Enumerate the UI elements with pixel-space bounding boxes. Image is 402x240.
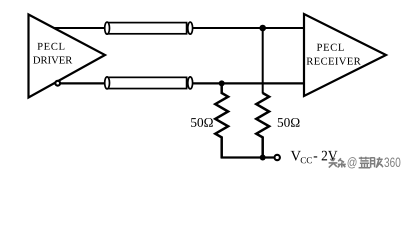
terminal: open circle Vcc-2V [275,155,280,160]
wire: vertical drop from top line to resistor R2 [262,28,264,94]
resistor R2 50 ohm [256,93,269,158]
resistor R1 50 ohm [215,83,228,158]
transmission line T1 (coax cylinder, top) [105,22,193,34]
wire: bottom rail to Vcc-2V terminal [221,156,274,158]
watermark glyph lan [359,157,372,169]
label: Vcc - 2V [291,151,338,164]
transmission line T2 (coax cylinder, bottom) [105,77,193,89]
watermark (gray) [329,157,402,170]
node: junction dot on bottom line (R1 tap) [219,80,225,86]
node: junction dot on top line [259,25,266,32]
label: 50 ohm right [278,118,300,127]
wire: line 1 to receiver [193,27,304,29]
op-amp U2 PECL receiver triangle [304,14,386,96]
label: 50 ohm left [191,118,213,127]
wire: driver noninverting output to line 1 [52,27,106,29]
watermark 360 [384,158,401,169]
watermark glyph tiao [338,158,347,168]
node: junction dot on rail [260,155,266,161]
op-amp U1 PECL driver triangle [29,15,106,98]
wire: line 2 to receiver [193,82,304,84]
watermark glyph tou [329,158,339,169]
inverting output bubble on driver [55,81,60,86]
watermark at-sign [348,157,358,169]
watermark glyph tun [371,157,384,169]
wire: driver inverting output to line 2 [60,82,106,84]
